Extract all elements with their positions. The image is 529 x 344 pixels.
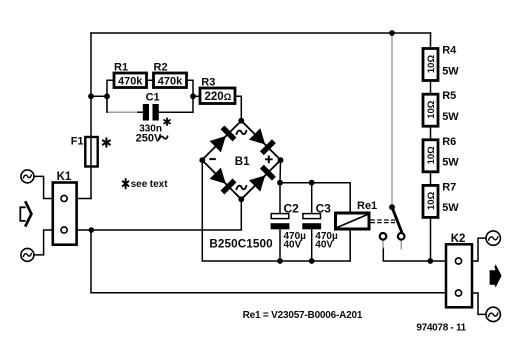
svg-text:C2: C2	[284, 201, 300, 215]
svg-text:B250C1500: B250C1500	[209, 238, 273, 251]
svg-text:R7: R7	[442, 181, 456, 193]
svg-text:470k: 470k	[158, 76, 183, 88]
svg-text:B1: B1	[235, 156, 250, 168]
svg-text:220Ω: 220Ω	[205, 91, 232, 103]
svg-text:Re1 = V23057-B0006-A201: Re1 = V23057-B0006-A201	[243, 310, 363, 321]
svg-text:5W: 5W	[442, 65, 459, 77]
svg-text:R5: R5	[442, 90, 456, 102]
svg-text:R2: R2	[154, 61, 168, 73]
svg-text:R1: R1	[114, 61, 128, 73]
svg-text:5W: 5W	[442, 111, 459, 123]
svg-text:250V: 250V	[136, 133, 162, 145]
svg-text:5W: 5W	[442, 202, 459, 214]
svg-text:C1: C1	[146, 91, 160, 103]
svg-text:5W: 5W	[442, 157, 459, 169]
svg-text:F1: F1	[71, 136, 84, 148]
svg-text:10Ω: 10Ω	[426, 100, 437, 119]
svg-text:470k: 470k	[118, 76, 143, 88]
svg-text:K2: K2	[451, 233, 466, 245]
svg-text:K1: K1	[57, 171, 72, 183]
svg-text:974078 - 11: 974078 - 11	[416, 322, 466, 333]
svg-text:see text: see text	[131, 179, 169, 190]
svg-text:R6: R6	[442, 136, 456, 148]
svg-text:R4: R4	[442, 45, 457, 57]
svg-text:Re1: Re1	[357, 200, 377, 212]
svg-text:10Ω: 10Ω	[426, 191, 437, 210]
svg-text:10Ω: 10Ω	[426, 146, 437, 165]
svg-text:40V: 40V	[284, 240, 302, 251]
svg-text:R3: R3	[201, 77, 215, 89]
svg-text:40V: 40V	[315, 240, 333, 251]
svg-text:10Ω: 10Ω	[426, 55, 437, 74]
svg-text:C3: C3	[316, 201, 332, 215]
